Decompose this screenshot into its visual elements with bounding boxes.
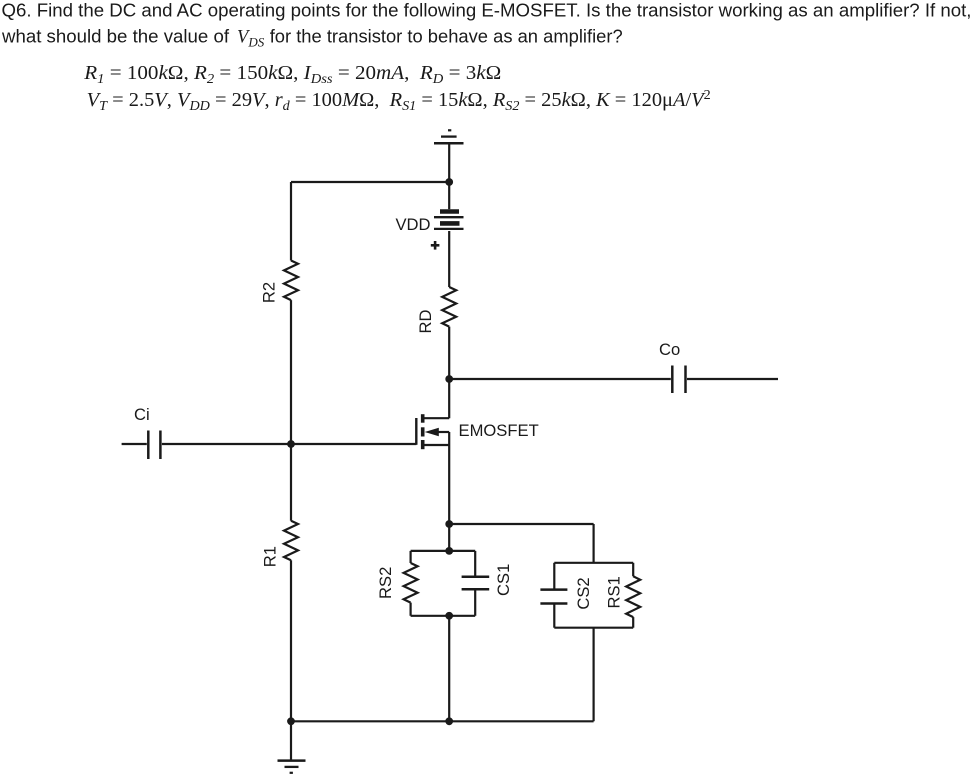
svg-text:RS1: RS1 bbox=[604, 576, 623, 608]
svg-text:Co: Co bbox=[659, 340, 680, 359]
wire: battery bottom to RD bbox=[448, 231, 450, 287]
svg-text:R2: R2 bbox=[259, 282, 278, 303]
wire: CS2/RS1 block down to ground rail bbox=[592, 628, 594, 722]
wire: bottom ground rail bbox=[291, 720, 594, 722]
wire: RS1 branch bottom lead bbox=[632, 617, 634, 628]
wire: left vertical, top rail down to R2 bbox=[290, 182, 292, 261]
wire: gate wire from input node to gate bbox=[291, 443, 416, 445]
wire: node A to R2 top rail bbox=[291, 181, 449, 183]
wire: RS2/CS1 block top rail bbox=[411, 550, 476, 552]
wire: RD bottom to drain node B bbox=[448, 327, 450, 419]
wire: top ground to node A bbox=[448, 143, 450, 182]
node F (ground rail left) bbox=[287, 717, 295, 725]
body stub with arrow bbox=[436, 431, 449, 433]
wire: right branch corner down to CS2/RS1 block bbox=[592, 524, 594, 563]
svg-text:CS1: CS1 bbox=[494, 564, 513, 596]
wire: input lead left of Ci bbox=[122, 443, 147, 445]
node G (gate / divider node) bbox=[287, 440, 295, 448]
svg-text:Q6. Find the DC and AC operati: Q6. Find the DC and AC operating points … bbox=[2, 0, 972, 21]
svg-text:CS2: CS2 bbox=[574, 577, 593, 609]
node A (top supply node) bbox=[445, 178, 453, 186]
wire: Co to output (right) bbox=[687, 378, 778, 380]
capacitor CS1 bbox=[462, 577, 490, 590]
plus sign of VDD battery bbox=[431, 241, 440, 250]
svg-text:RS2: RS2 bbox=[376, 567, 395, 599]
svg-text:Ci: Ci bbox=[134, 405, 150, 424]
resistor R1 bbox=[284, 521, 298, 561]
wire: CS1 branch bottom lead bbox=[474, 589, 476, 616]
node D (top of RS2/CS1 block) bbox=[445, 547, 453, 555]
wire: MOSFET source down to node C bbox=[448, 432, 450, 551]
channel bar (source) bbox=[421, 440, 425, 449]
resistor RS1 bbox=[626, 576, 640, 617]
svg-text:R1: R1 bbox=[261, 546, 280, 567]
wire: RS2 branch bottom lead bbox=[410, 603, 412, 616]
ground GND-top (inverted, above VDD) bbox=[434, 130, 464, 143]
wire: CS2/RS1 block top rail bbox=[554, 562, 633, 564]
drain stub bbox=[424, 417, 449, 419]
node E (bottom of RS2/CS1 block) bbox=[445, 612, 453, 620]
svg-text:VDD: VDD bbox=[395, 215, 430, 234]
wire: R1 bottom to ground rail bbox=[290, 560, 292, 721]
source stub bbox=[424, 444, 449, 446]
wire: RS2/CS1 block bottom rail bbox=[411, 615, 476, 617]
svg-text:VT = 2.5V, VDD = 29V, rd = 100: VT = 2.5V, VDD = 29V, rd = 100MΩ, RS1 = … bbox=[87, 87, 711, 113]
transistor Q1 EMOSFET bbox=[416, 414, 449, 449]
resistor R2 bbox=[284, 261, 298, 301]
wire: CS2 branch top lead bbox=[553, 563, 555, 590]
resistor RS2 bbox=[404, 563, 418, 603]
ground GND-bottom bbox=[278, 761, 306, 773]
wire: Ci to gate node bbox=[162, 443, 291, 445]
battery VDD (plates) bbox=[434, 212, 464, 229]
wire: rail to bottom ground bbox=[290, 721, 292, 760]
wire: CS2/RS1 block bottom rail bbox=[554, 627, 633, 629]
capacitor Ci bbox=[148, 431, 160, 460]
channel bar (body) bbox=[421, 427, 425, 436]
svg-text:for the transistor to behave a: for the transistor to behave as an ampli… bbox=[270, 25, 623, 46]
node B (drain node) bbox=[445, 375, 453, 383]
wire: RS1 branch top lead bbox=[632, 563, 634, 577]
wire: gate node to R1 top bbox=[290, 444, 292, 521]
wire: R2 bottom to gate node bbox=[290, 300, 292, 444]
wire: node A to battery top bbox=[448, 182, 450, 209]
svg-text:EMOSFET: EMOSFET bbox=[459, 421, 539, 440]
wire: node B to Co capacitor bbox=[449, 378, 671, 380]
node H (ground rail centre) bbox=[445, 717, 453, 725]
channel bar (drain) bbox=[421, 414, 425, 423]
wire: CS1 branch top lead bbox=[474, 551, 476, 577]
node C (source node, to right branch) bbox=[445, 520, 453, 528]
wire: RS2 branch top lead bbox=[410, 551, 412, 563]
capacitor Co bbox=[672, 366, 685, 394]
wire: CS2 branch bottom lead bbox=[553, 604, 555, 628]
wire: node C to right branch corner bbox=[449, 523, 593, 525]
gate bar bbox=[415, 418, 417, 445]
capacitor CS2 bbox=[540, 590, 567, 604]
svg-text:what should be the value of: what should be the value of bbox=[1, 25, 230, 46]
svg-text:RD: RD bbox=[416, 310, 435, 334]
resistor RD bbox=[442, 287, 456, 327]
wire: node E down to ground rail bbox=[448, 616, 450, 722]
